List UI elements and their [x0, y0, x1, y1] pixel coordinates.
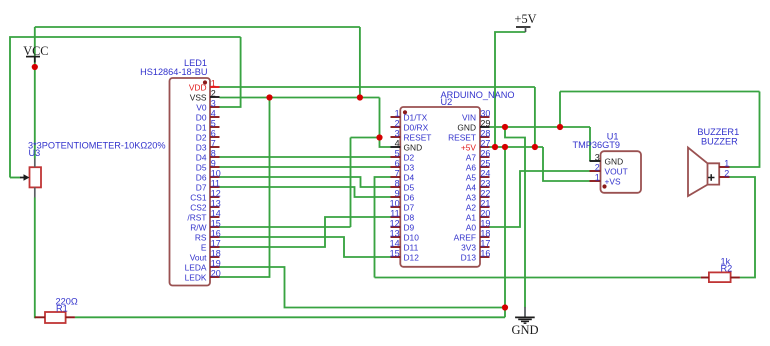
svg-text:13: 13	[390, 228, 400, 238]
R1 right stub	[66, 316, 75, 318]
svg-text:1: 1	[395, 108, 400, 118]
U3 wiper arrow	[20, 174, 30, 180]
svg-text:GND: GND	[457, 123, 476, 133]
svg-text:15: 15	[211, 218, 221, 228]
svg-text:10: 10	[390, 198, 400, 208]
LED1 pin 10 D6	[196, 168, 221, 182]
svg-text:D3: D3	[404, 163, 415, 173]
ground symbol GND	[511, 307, 538, 337]
wire V0 net vertical x=240.6 down to LED pin3	[220, 37, 241, 107]
microcontroller U2 ARDUINO_NANO body	[400, 107, 480, 267]
LED1 pin 9 D5	[196, 158, 220, 172]
svg-text:BUZZER: BUZZER	[701, 136, 738, 146]
svg-text:A5: A5	[466, 173, 477, 183]
svg-text:Vout: Vout	[190, 253, 207, 263]
svg-text:VSS: VSS	[190, 93, 207, 103]
svg-text:A4: A4	[466, 183, 477, 193]
svg-text:19: 19	[211, 258, 221, 268]
U2 pin 6 D3	[391, 158, 415, 172]
LED1 pin 5 D1	[196, 118, 220, 132]
U2 pin 30 VIN	[462, 108, 490, 122]
svg-text:RESET: RESET	[448, 133, 476, 143]
svg-text:BUZZER1: BUZZER1	[697, 127, 739, 137]
U2 pin 8 D5	[391, 178, 415, 192]
svg-text:18: 18	[211, 248, 221, 258]
svg-text:D1: D1	[196, 123, 207, 133]
R2 left stub	[701, 277, 709, 279]
LED1 pin 16 RS	[195, 228, 221, 242]
svg-text:20: 20	[211, 268, 221, 278]
LED1 pin 4 D0	[196, 108, 220, 122]
svg-text:U2: U2	[441, 97, 453, 107]
svg-text:3*3POTENTIOMETER-10KΩ20%: 3*3POTENTIOMETER-10KΩ20%	[28, 140, 166, 150]
svg-text:D1/TX: D1/TX	[404, 113, 428, 123]
svg-text:8: 8	[211, 148, 216, 158]
svg-text:3V3: 3V3	[461, 243, 476, 253]
svg-text:23: 23	[480, 178, 490, 188]
svg-text:D6: D6	[404, 193, 415, 203]
svg-text:15: 15	[390, 248, 400, 258]
svg-text:E: E	[201, 243, 207, 253]
wire U2 D4 pin7 to buzzer net vertical x=374.5	[375, 177, 391, 278]
svg-text:2: 2	[724, 168, 729, 178]
svg-text:14: 14	[211, 208, 221, 218]
U2 pin 2 D0/RX	[391, 118, 429, 132]
svg-text:R1: R1	[56, 303, 68, 313]
U2 pin 14 D11	[390, 238, 419, 252]
junction +5V distribution junction	[502, 144, 508, 150]
U2 pin-1 orientation dot	[403, 110, 407, 114]
junction VSS/VCC-rail junction	[357, 94, 363, 100]
U3 top pin stub	[34, 159, 36, 168]
svg-text:14: 14	[390, 238, 400, 248]
LED1 pin 14 /RST	[187, 208, 220, 222]
svg-text:3: 3	[211, 98, 216, 108]
BUZZER1 pin 2	[719, 168, 729, 178]
svg-text:D3: D3	[196, 143, 207, 153]
svg-text:17: 17	[211, 238, 221, 248]
LED1 pin 1 VDD	[189, 78, 220, 92]
svg-text:+5V: +5V	[461, 143, 477, 153]
svg-text:TMP36GT9: TMP36GT9	[573, 140, 620, 150]
U2 pin 20 A1	[466, 208, 491, 222]
LED1 pin 2 VSS	[190, 88, 220, 102]
LED1 pin 20 LEDK	[185, 268, 221, 282]
svg-text:2: 2	[211, 88, 216, 98]
svg-text:A1: A1	[466, 213, 477, 223]
svg-text:22: 22	[480, 188, 490, 198]
svg-text:7: 7	[211, 138, 216, 148]
U1 pin 3 GND	[590, 152, 624, 166]
wire LED D7 jog to U2 D6	[220, 187, 391, 197]
LED1 pin 18 Vout	[190, 248, 221, 262]
svg-text:7: 7	[395, 168, 400, 178]
svg-text:20: 20	[480, 208, 490, 218]
U2 pin 29 GND	[457, 118, 490, 132]
svg-text:1: 1	[595, 172, 600, 182]
wire VDD net vertical x=535 down to +5V row	[534, 87, 536, 147]
U2 pin 27 +5V	[461, 138, 491, 152]
U2 pin 9 D6	[391, 188, 415, 202]
svg-text:3: 3	[595, 152, 600, 162]
svg-text:D0/RX: D0/RX	[404, 123, 429, 133]
wire VSS net vertical x=379.5 down to U2 GND pin4	[380, 98, 391, 148]
svg-text:GND: GND	[511, 323, 538, 337]
wire buzzer pin1 drop x=759.5	[730, 92, 760, 168]
U2 pin 3 RESET	[391, 128, 432, 142]
U1 pin-1 orientation dot	[602, 184, 606, 188]
U2 pin 21 A2	[466, 198, 491, 212]
LED1 pin 17 E	[201, 238, 221, 252]
wire pot wiper rail y=37 from x=10 to x=240.6	[10, 37, 241, 178]
svg-text:RS: RS	[195, 233, 207, 243]
svg-text:5: 5	[211, 118, 216, 128]
svg-text:D11: D11	[404, 243, 419, 253]
svg-text:VDD: VDD	[189, 83, 207, 93]
svg-text:D8: D8	[404, 213, 415, 223]
wire +5V to TMP36 +VS	[543, 147, 590, 181]
svg-text:8: 8	[395, 178, 400, 188]
svg-text:VCC: VCC	[23, 44, 48, 58]
wire buzzer drive row y=277.5 to R2	[375, 277, 701, 279]
wire VCC vertical x=35 down to potentiometer	[34, 27, 36, 159]
LED1 pin 3 V0	[196, 98, 219, 112]
svg-text:26: 26	[480, 148, 490, 158]
svg-text:17: 17	[480, 238, 490, 248]
wire buzzer GND loop top y=91.5	[560, 91, 760, 93]
svg-text:U3: U3	[29, 148, 41, 158]
U3 bottom pin stub	[34, 187, 36, 197]
svg-text:D9: D9	[404, 223, 415, 233]
svg-text:D10: D10	[404, 233, 420, 243]
wire LED E jog to U2 D8	[220, 217, 391, 247]
wire U2 A0 to TMP36 VOUT	[490, 171, 590, 227]
svg-text:5: 5	[395, 148, 400, 158]
svg-text:D4: D4	[404, 173, 415, 183]
wire LED RS jog to U2 D12	[220, 237, 391, 257]
svg-text:4: 4	[211, 108, 216, 118]
svg-text:19: 19	[480, 218, 490, 228]
svg-text:A2: A2	[466, 203, 477, 213]
R2 right stub	[731, 277, 740, 279]
svg-text:2: 2	[395, 118, 400, 128]
junction VSS/LEDK junction	[266, 94, 272, 100]
svg-text:12: 12	[390, 218, 400, 228]
U2 pin 19 A0	[466, 218, 491, 232]
U2 pin 13 D10	[390, 228, 420, 242]
svg-text:HS12864-18-BU: HS12864-18-BU	[140, 67, 207, 77]
wire +5V distribution vertical x=505 down to R1 row	[504, 147, 506, 317]
wire LED D5 to U2 D3 y=167	[220, 166, 391, 168]
junction GND branch junction	[376, 134, 382, 140]
svg-text:A6: A6	[466, 163, 477, 173]
U2 pin 15 D12	[390, 248, 420, 262]
svg-text:D7: D7	[404, 203, 415, 213]
U2 pin 18 AREF	[454, 228, 491, 242]
U2 pin 22 A3	[466, 188, 491, 202]
svg-text:1: 1	[724, 158, 729, 168]
svg-text:D13: D13	[461, 253, 477, 263]
junction VCC pin junction	[32, 64, 38, 70]
svg-text:1: 1	[211, 78, 216, 88]
svg-text:3: 3	[395, 128, 400, 138]
LCD module LED1 HS12864-18-BU body	[170, 78, 211, 286]
svg-text:D2: D2	[196, 133, 207, 143]
svg-text:R/W: R/W	[190, 223, 206, 233]
U2 pin 12 D9	[390, 218, 415, 232]
svg-text:12: 12	[211, 188, 221, 198]
U2 pin 16 D13	[461, 248, 491, 262]
R1 left stub	[35, 316, 45, 318]
svg-text:29: 29	[480, 118, 490, 128]
U2 pin 5 D2	[391, 148, 415, 162]
svg-text:V0: V0	[196, 103, 207, 113]
wire +5V row y=147 from U2 pin27 to x=543	[490, 146, 544, 148]
svg-text:25: 25	[480, 158, 490, 168]
LED1 pin 15 R/W	[190, 218, 220, 232]
svg-text:9: 9	[211, 158, 216, 168]
svg-text:D12: D12	[404, 253, 420, 263]
wire GND net up x=560 to buzzer loop	[559, 92, 561, 128]
LED1 pin 6 D2	[196, 128, 220, 142]
LED1 pin 7 D3	[196, 138, 220, 152]
wire VCC top rail y=27	[35, 26, 360, 28]
wire VCC rail drop to VSS row at x=360	[359, 27, 361, 98]
svg-text:LEDA: LEDA	[185, 263, 207, 273]
junction VDD/+5V junction	[532, 144, 538, 150]
svg-text:27: 27	[480, 138, 490, 148]
svg-text:+5V: +5V	[515, 12, 537, 26]
LED1 pin 13 CS2	[190, 198, 221, 212]
LED1 pin-1 orientation dot	[203, 80, 207, 84]
svg-text:A0: A0	[466, 223, 477, 233]
svg-text:30: 30	[480, 108, 490, 118]
wire U2 GND pin29 row y=127 to TMP36 corner	[490, 126, 591, 128]
U1 pin 1 +VS	[590, 172, 621, 186]
wire R2 right up to buzzer pin2	[730, 177, 756, 278]
svg-text:GND: GND	[404, 143, 423, 153]
U2 pin 11 D8	[390, 208, 414, 222]
U2 pin 7 D4	[391, 168, 415, 182]
junction GND pin29 junction	[502, 124, 508, 130]
svg-text:28: 28	[480, 128, 490, 138]
svg-text:RESET: RESET	[404, 133, 432, 143]
svg-text:11: 11	[390, 208, 399, 218]
U2 pin 26 A7	[466, 148, 491, 162]
svg-text:D6: D6	[196, 173, 207, 183]
svg-text:16: 16	[480, 248, 490, 258]
U2 pin 17 3V3	[461, 238, 490, 252]
svg-text:GND: GND	[605, 157, 624, 167]
svg-text:18: 18	[480, 228, 490, 238]
U2 pin 25 A6	[466, 158, 491, 172]
wire +5V symbol feed down x=495	[495, 32, 526, 147]
wire LED D4 to U2 D2 y=157	[220, 156, 391, 158]
U2 pin 24 A5	[466, 168, 491, 182]
BUZZER1 pin 1	[719, 158, 729, 168]
wire LED LEDA jog down to +5V distribution	[220, 267, 506, 308]
svg-text:AREF: AREF	[454, 233, 476, 243]
svg-text:24: 24	[480, 168, 490, 178]
svg-text:A3: A3	[466, 193, 477, 203]
U1 pin 2 VOUT	[590, 162, 628, 176]
svg-text:16: 16	[211, 228, 221, 238]
svg-text:D2: D2	[404, 153, 415, 163]
junction GND/buzzer junction	[557, 124, 563, 130]
resistor R2 body	[709, 272, 731, 282]
svg-text:10: 10	[211, 168, 221, 178]
svg-text:VIN: VIN	[462, 113, 476, 123]
LED1 pin 12 CS1	[190, 188, 221, 202]
svg-text:D0: D0	[196, 113, 207, 123]
U2 pin 1 D1/TX	[391, 108, 428, 122]
svg-text:D4: D4	[196, 153, 207, 163]
svg-text:6: 6	[395, 158, 400, 168]
wire VSS row y=97.5 from LED pin2 to x=379.5	[220, 97, 380, 99]
buzzer BUZZER1 speaker symbol	[688, 148, 719, 197]
svg-text:VOUT: VOUT	[605, 167, 628, 177]
potentiometer U3 body	[30, 167, 42, 187]
BUZZER1 plus polarity mark	[708, 174, 715, 181]
wire GND jog from pin29 dot down	[505, 127, 525, 308]
wire VDD net long horizontal y=87 from LED pin1 to x=535	[220, 86, 535, 88]
svg-text:4: 4	[395, 138, 400, 148]
svg-text:CS2: CS2	[190, 203, 207, 213]
svg-text:21: 21	[480, 198, 490, 208]
LED1 pin 8 D4	[196, 148, 220, 162]
svg-text:D5: D5	[404, 183, 415, 193]
svg-text:11: 11	[211, 178, 220, 188]
U2 pin 23 A4	[466, 178, 491, 192]
svg-text:LEDK: LEDK	[185, 273, 207, 283]
wire GND net x=590 down to TMP36 GND pin	[589, 127, 591, 161]
power symbol +5V	[515, 12, 537, 32]
svg-text:9: 9	[395, 188, 400, 198]
U2 pin 10 D7	[390, 198, 415, 212]
svg-text:2: 2	[595, 162, 600, 172]
wire LED R/W row y=227	[220, 226, 351, 228]
wire GND branch y=137.5 to x=350.5	[351, 137, 380, 139]
U2 pin 4 GND	[391, 138, 423, 152]
LED1 pin 19 LEDA	[185, 258, 221, 272]
LED1 pin 11 D7	[196, 178, 220, 192]
svg-text:A7: A7	[466, 153, 477, 163]
wire LED D6 jog to U2 D5	[220, 177, 391, 187]
svg-text:+VS: +VS	[605, 177, 621, 187]
wire LED LEDK up to VSS row at x=269.5	[220, 98, 270, 278]
junction +5V symbol junction	[492, 144, 498, 150]
svg-text:D5: D5	[196, 163, 207, 173]
svg-text:CS1: CS1	[190, 193, 207, 203]
junction +5V/LEDA junction	[502, 304, 508, 310]
svg-text:D7: D7	[196, 183, 207, 193]
wire pot wiper horizontal into arrow	[10, 177, 21, 179]
temperature sensor U1 TMP36GT9 body	[601, 151, 642, 193]
wire GND branch vertical x=350.5 down to R/W row	[350, 138, 352, 228]
svg-text:6: 6	[211, 128, 216, 138]
wire R1 right to +5V distribution y=317.3	[75, 316, 505, 318]
resistor R1 body	[45, 312, 66, 323]
wire pot bottom down to R1 left	[35, 198, 36, 318]
U2 pin 28 RESET	[448, 128, 490, 142]
power symbol VCC	[23, 44, 48, 62]
svg-text:/RST: /RST	[187, 213, 206, 223]
svg-text:R2: R2	[721, 263, 733, 273]
svg-text:13: 13	[211, 198, 221, 208]
